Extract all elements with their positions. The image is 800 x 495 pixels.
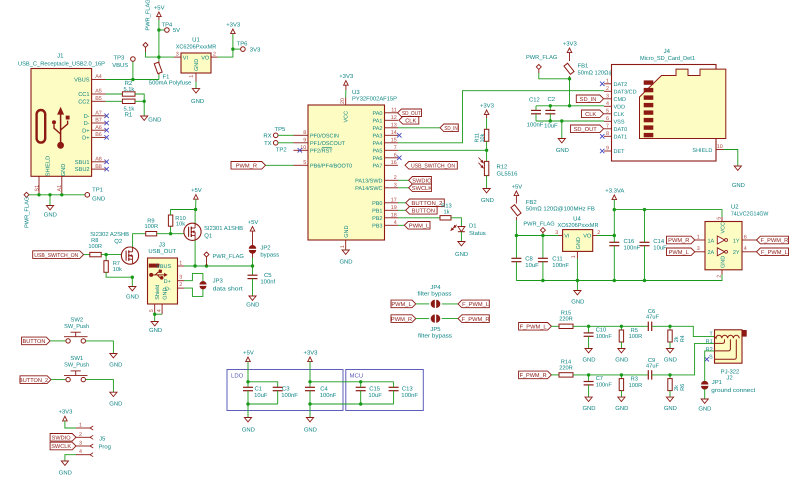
svg-text:C14: C14 xyxy=(653,238,665,245)
svg-text:10k: 10k xyxy=(176,220,185,227)
svg-text:GND: GND xyxy=(246,301,259,308)
svg-text:1: 1 xyxy=(179,260,182,266)
svg-text:3: 3 xyxy=(179,275,182,281)
svg-text:TP5: TP5 xyxy=(275,126,287,133)
svg-text:A5: A5 xyxy=(95,89,102,95)
svg-text:PB1: PB1 xyxy=(372,209,382,215)
svg-text:R2: R2 xyxy=(125,80,133,87)
svg-text:3V3: 3V3 xyxy=(250,47,261,54)
svg-text:B5: B5 xyxy=(95,96,102,102)
svg-text:PWR_FLAG: PWR_FLAG xyxy=(213,254,244,260)
svg-text:14: 14 xyxy=(391,130,397,136)
svg-text:GND: GND xyxy=(615,357,628,364)
svg-text:TP6: TP6 xyxy=(237,41,249,48)
svg-text:PWM_L: PWM_L xyxy=(391,302,411,308)
svg-text:PA4: PA4 xyxy=(373,141,383,147)
svg-text:100nF: 100nF xyxy=(596,334,613,340)
svg-text:JP3: JP3 xyxy=(213,278,224,285)
svg-text:SD_IN: SD_IN xyxy=(444,126,457,132)
svg-text:PA5: PA5 xyxy=(373,149,383,155)
svg-text:DAT0: DAT0 xyxy=(614,127,628,133)
svg-text:1A: 1A xyxy=(708,238,715,244)
svg-text:4: 4 xyxy=(606,101,609,107)
svg-text:RX: RX xyxy=(263,132,271,139)
svg-text:100nF: 100nF xyxy=(527,122,544,129)
svg-text:PY32F002AF15P: PY32F002AF15P xyxy=(352,96,397,103)
svg-text:C5: C5 xyxy=(264,272,272,279)
svg-text:100nF: 100nF xyxy=(552,262,569,269)
svg-text:SW1: SW1 xyxy=(70,355,83,362)
svg-text:3: 3 xyxy=(176,51,179,57)
svg-text:SI2301 A1SHB: SI2301 A1SHB xyxy=(204,225,243,232)
svg-text:J1: J1 xyxy=(57,52,64,59)
svg-text:JP2: JP2 xyxy=(260,245,270,252)
svg-text:2: 2 xyxy=(213,51,216,57)
svg-text:SBU2: SBU2 xyxy=(75,167,90,173)
svg-text:50mΩ 120Ω@100MHz FB: 50mΩ 120Ω@100MHz FB xyxy=(526,205,595,212)
svg-text:100nF: 100nF xyxy=(281,392,298,399)
svg-text:B7: B7 xyxy=(95,118,102,124)
svg-text:PA3: PA3 xyxy=(373,134,383,140)
svg-text:100nF: 100nF xyxy=(624,245,641,252)
svg-text:GND: GND xyxy=(109,400,122,407)
svg-text:74LVC2G14GW: 74LVC2G14GW xyxy=(731,210,769,217)
svg-text:17: 17 xyxy=(391,198,397,204)
svg-text:GND: GND xyxy=(481,197,494,204)
svg-text:TX: TX xyxy=(264,140,272,147)
svg-text:Shield: Shield xyxy=(155,285,161,300)
svg-text:PWM_R: PWM_R xyxy=(236,164,257,170)
svg-text:10uF: 10uF xyxy=(254,392,268,399)
svg-text:Q1: Q1 xyxy=(204,232,212,239)
svg-text:2A: 2A xyxy=(708,250,715,256)
svg-text:D+: D+ xyxy=(164,279,171,285)
svg-text:+5V: +5V xyxy=(248,219,259,226)
svg-text:PF1/OSCOUT: PF1/OSCOUT xyxy=(310,141,346,147)
svg-text:5.1k: 5.1k xyxy=(124,86,135,93)
svg-text:100nF: 100nF xyxy=(401,392,418,399)
svg-text:+3V3: +3V3 xyxy=(563,40,578,47)
svg-text:BUTTON_2: BUTTON_2 xyxy=(19,378,48,384)
svg-text:F_PWM_L: F_PWM_L xyxy=(462,302,489,308)
svg-text:100R: 100R xyxy=(144,224,158,230)
svg-text:1k: 1k xyxy=(443,208,449,215)
svg-text:SHIELD: SHIELD xyxy=(692,148,712,154)
svg-text:GND: GND xyxy=(721,256,727,268)
svg-text:GND: GND xyxy=(126,294,139,301)
svg-text:J3: J3 xyxy=(159,242,166,249)
svg-text:C11: C11 xyxy=(552,256,562,263)
svg-text:10: 10 xyxy=(300,145,306,151)
svg-text:U1: U1 xyxy=(192,36,200,43)
svg-text:DET: DET xyxy=(614,149,626,155)
svg-text:1: 1 xyxy=(340,245,346,248)
svg-text:USB_SWITCH_ON: USB_SWITCH_ON xyxy=(411,164,455,170)
svg-text:+3.3VA: +3.3VA xyxy=(605,187,624,194)
svg-text:GND: GND xyxy=(304,427,317,434)
svg-text:CMD: CMD xyxy=(614,97,627,103)
svg-text:SHIELD: SHIELD xyxy=(46,156,52,177)
svg-text:9: 9 xyxy=(606,146,609,152)
svg-text:DAT2: DAT2 xyxy=(614,82,628,88)
svg-text:10: 10 xyxy=(717,144,723,150)
svg-text:TP1: TP1 xyxy=(92,187,103,194)
svg-text:PA6: PA6 xyxy=(373,156,383,162)
svg-text:SW_Push: SW_Push xyxy=(64,323,89,330)
svg-text:GND: GND xyxy=(582,357,595,364)
svg-text:R5: R5 xyxy=(631,328,638,334)
svg-text:D1: D1 xyxy=(469,223,477,230)
svg-text:U4: U4 xyxy=(573,215,581,222)
svg-text:B8: B8 xyxy=(95,164,102,170)
svg-text:J5: J5 xyxy=(99,436,106,443)
svg-text:PB3: PB3 xyxy=(372,224,382,230)
svg-text:JP5: JP5 xyxy=(430,326,441,333)
svg-text:2: 2 xyxy=(394,175,397,181)
svg-text:500mA Polyfuse: 500mA Polyfuse xyxy=(149,80,192,87)
svg-text:C8: C8 xyxy=(525,256,533,263)
svg-text:GND: GND xyxy=(109,362,122,369)
svg-text:PA7: PA7 xyxy=(373,164,383,170)
svg-text:47uF: 47uF xyxy=(646,363,659,369)
svg-text:R6: R6 xyxy=(680,384,686,391)
svg-text:C13: C13 xyxy=(402,385,414,392)
svg-text:Status: Status xyxy=(469,230,486,237)
svg-text:1: 1 xyxy=(697,234,700,240)
svg-text:1: 1 xyxy=(571,255,577,258)
svg-text:+3V3: +3V3 xyxy=(339,73,354,80)
svg-text:JP1: JP1 xyxy=(712,379,722,386)
svg-text:3: 3 xyxy=(394,183,397,189)
svg-text:2: 2 xyxy=(79,432,82,438)
svg-text:11: 11 xyxy=(391,108,397,114)
svg-text:SW2: SW2 xyxy=(70,317,83,324)
svg-text:100R: 100R xyxy=(88,244,102,250)
svg-text:4: 4 xyxy=(79,449,82,455)
svg-text:5.1k: 5.1k xyxy=(124,105,135,112)
svg-text:F1: F1 xyxy=(163,74,170,81)
svg-text:5: 5 xyxy=(149,309,155,312)
svg-text:GND: GND xyxy=(582,405,595,412)
svg-text:R1: R1 xyxy=(706,339,713,345)
svg-text:SWDIO: SWDIO xyxy=(52,436,72,442)
svg-text:DAT1: DAT1 xyxy=(614,135,628,141)
svg-text:PWM_R: PWM_R xyxy=(391,317,412,323)
svg-text:R3: R3 xyxy=(631,377,638,383)
svg-text:PF2/RST: PF2/RST xyxy=(310,149,333,155)
svg-text:PWR_FLAG: PWR_FLAG xyxy=(523,221,554,227)
svg-text:100nF: 100nF xyxy=(320,392,337,399)
svg-text:D+: D+ xyxy=(82,128,90,134)
svg-text:VCC: VCC xyxy=(344,111,350,123)
svg-text:5: 5 xyxy=(717,217,723,220)
svg-text:100nF: 100nF xyxy=(596,382,613,388)
svg-text:GND: GND xyxy=(162,288,168,300)
svg-text:GND: GND xyxy=(664,357,677,364)
svg-text:VI: VI xyxy=(183,55,189,61)
svg-text:bypass: bypass xyxy=(260,252,279,259)
svg-text:DAT3/CD: DAT3/CD xyxy=(614,90,637,96)
svg-text:D-: D- xyxy=(84,121,90,127)
svg-text:GND: GND xyxy=(44,212,57,219)
svg-text:1: 1 xyxy=(606,79,609,85)
svg-text:1: 1 xyxy=(79,423,82,429)
svg-text:2: 2 xyxy=(717,275,723,278)
svg-text:A6: A6 xyxy=(95,125,102,131)
svg-text:ground connect: ground connect xyxy=(711,387,755,394)
svg-text:CLK: CLK xyxy=(614,112,625,118)
svg-text:J4: J4 xyxy=(664,48,671,55)
svg-text:1: 1 xyxy=(189,75,195,78)
svg-text:VDD: VDD xyxy=(614,105,626,111)
svg-text:GND: GND xyxy=(149,327,162,334)
svg-text:1Y: 1Y xyxy=(733,238,740,244)
svg-text:+3V3: +3V3 xyxy=(58,409,73,416)
svg-text:GND: GND xyxy=(59,469,72,476)
svg-text:TP3: TP3 xyxy=(114,55,126,62)
svg-text:VBUS: VBUS xyxy=(74,78,90,84)
svg-text:GND: GND xyxy=(61,164,67,177)
svg-text:19: 19 xyxy=(391,205,397,211)
svg-text:PWR_FLAG: PWR_FLAG xyxy=(526,55,557,61)
svg-text:3: 3 xyxy=(606,94,609,100)
svg-text:SD_OUT: SD_OUT xyxy=(574,127,598,133)
svg-text:10k: 10k xyxy=(113,266,122,273)
svg-text:13: 13 xyxy=(391,123,397,129)
svg-text:R12: R12 xyxy=(497,163,508,170)
svg-text:8: 8 xyxy=(303,130,306,136)
svg-text:PF0/OSCIN: PF0/OSCIN xyxy=(310,134,339,140)
svg-text:C4: C4 xyxy=(320,385,328,392)
svg-text:Micro_SD_Card_Det1: Micro_SD_Card_Det1 xyxy=(640,55,695,62)
svg-text:100R: 100R xyxy=(629,383,643,389)
svg-text:CC1: CC1 xyxy=(78,92,89,98)
svg-text:+5V: +5V xyxy=(512,183,523,190)
svg-text:BUTTON: BUTTON xyxy=(412,209,435,215)
svg-text:2: 2 xyxy=(606,86,609,92)
svg-text:100nf: 100nf xyxy=(260,279,275,286)
svg-text:+5V: +5V xyxy=(243,349,254,356)
svg-text:GND: GND xyxy=(615,405,628,412)
svg-text:18: 18 xyxy=(391,213,397,219)
svg-text:47uF: 47uF xyxy=(646,315,659,321)
svg-text:GND: GND xyxy=(732,182,745,189)
svg-text:U2: U2 xyxy=(731,204,739,211)
svg-text:C12: C12 xyxy=(529,97,540,104)
svg-text:PWR_FLAG: PWR_FLAG xyxy=(145,0,151,31)
svg-text:C3: C3 xyxy=(282,385,290,392)
svg-text:A8: A8 xyxy=(95,157,102,163)
svg-text:PWM_L: PWM_L xyxy=(669,250,689,256)
svg-text:220R: 220R xyxy=(559,365,573,371)
svg-text:GND: GND xyxy=(698,406,711,413)
svg-text:R2: R2 xyxy=(706,347,713,353)
svg-text:VCC: VCC xyxy=(721,222,727,234)
svg-text:PA13/SWD: PA13/SWD xyxy=(355,179,382,185)
svg-text:TP4: TP4 xyxy=(162,21,174,28)
svg-text:Q2: Q2 xyxy=(114,238,122,245)
svg-text:12: 12 xyxy=(391,115,397,121)
svg-text:F_PWM_R: F_PWM_R xyxy=(520,373,547,379)
svg-text:data short: data short xyxy=(213,285,243,292)
svg-text:2: 2 xyxy=(179,282,182,288)
svg-text:S: S xyxy=(709,354,713,360)
svg-text:XC6206PxxxMR: XC6206PxxxMR xyxy=(558,222,599,229)
svg-text:100R: 100R xyxy=(629,334,643,340)
svg-text:R7: R7 xyxy=(113,261,120,267)
svg-text:PWM_R: PWM_R xyxy=(668,238,689,244)
svg-text:FB1: FB1 xyxy=(578,63,589,70)
svg-text:C16: C16 xyxy=(624,238,636,245)
svg-text:7: 7 xyxy=(394,145,397,151)
svg-text:J2: J2 xyxy=(726,375,732,382)
svg-text:A1: A1 xyxy=(57,185,63,192)
svg-text:F_PWM_L: F_PWM_L xyxy=(761,250,788,256)
svg-text:filter bypass: filter bypass xyxy=(418,333,452,340)
svg-text:5: 5 xyxy=(606,109,609,115)
svg-text:R1: R1 xyxy=(125,111,133,118)
svg-text:10uF: 10uF xyxy=(525,262,539,269)
svg-text:C1: C1 xyxy=(255,385,263,392)
svg-text:+3V3: +3V3 xyxy=(226,21,241,28)
svg-text:PWR_FLAG: PWR_FLAG xyxy=(25,197,31,228)
svg-text:GND: GND xyxy=(344,226,350,238)
svg-text:+3V3: +3V3 xyxy=(304,349,319,356)
svg-text:PA2: PA2 xyxy=(373,126,383,132)
svg-text:PB0: PB0 xyxy=(372,201,382,207)
svg-text:U3: U3 xyxy=(352,89,360,96)
svg-text:C7: C7 xyxy=(596,376,603,382)
svg-text:F_PWM_R: F_PWM_R xyxy=(462,317,490,323)
svg-text:A4: A4 xyxy=(95,74,102,80)
svg-text:GND: GND xyxy=(242,427,255,434)
svg-text:+5V: +5V xyxy=(191,187,202,194)
svg-text:USB_C_Receptacle_USB2.0_16P: USB_C_Receptacle_USB2.0_16P xyxy=(18,60,105,67)
svg-text:9: 9 xyxy=(303,138,306,144)
svg-text:GND: GND xyxy=(556,147,569,154)
svg-text:XC6206PxxxMR: XC6206PxxxMR xyxy=(176,44,217,51)
svg-text:VI: VI xyxy=(564,234,570,240)
svg-text:16: 16 xyxy=(391,160,397,166)
svg-text:USB_SWITCH_ON: USB_SWITCH_ON xyxy=(34,253,78,259)
svg-text:10k: 10k xyxy=(480,133,486,142)
svg-text:D-: D- xyxy=(84,114,90,120)
svg-text:SD_IN: SD_IN xyxy=(580,97,597,103)
svg-text:10uF: 10uF xyxy=(544,122,558,129)
svg-text:R4: R4 xyxy=(680,335,686,342)
svg-text:GL5516: GL5516 xyxy=(497,171,519,178)
svg-text:4: 4 xyxy=(394,220,397,226)
svg-text:PA14/SWC: PA14/SWC xyxy=(355,186,382,192)
svg-text:VO: VO xyxy=(583,234,592,240)
svg-text:7: 7 xyxy=(606,124,609,130)
svg-text:220R: 220R xyxy=(559,317,573,323)
svg-text:TP2: TP2 xyxy=(276,147,287,154)
svg-text:5V: 5V xyxy=(173,27,180,34)
svg-text:VO: VO xyxy=(201,55,210,61)
svg-text:4: 4 xyxy=(744,246,747,252)
svg-text:VBUS: VBUS xyxy=(156,264,171,270)
svg-text:SBU1: SBU1 xyxy=(75,160,90,166)
svg-text:B6: B6 xyxy=(95,132,102,138)
svg-text:USB_OUT: USB_OUT xyxy=(148,248,176,255)
svg-text:GND: GND xyxy=(339,259,352,266)
svg-text:6: 6 xyxy=(606,116,609,122)
svg-text:SW_Push: SW_Push xyxy=(64,362,89,369)
svg-text:3: 3 xyxy=(555,230,558,236)
svg-text:PB6/PF4/BOOT0: PB6/PF4/BOOT0 xyxy=(310,164,352,170)
svg-text:GND: GND xyxy=(148,116,161,123)
svg-text:+3V3: +3V3 xyxy=(480,102,495,109)
svg-text:4: 4 xyxy=(157,309,163,312)
svg-text:15: 15 xyxy=(391,138,397,144)
svg-text:2Y: 2Y xyxy=(733,250,740,256)
svg-text:10uF: 10uF xyxy=(653,245,667,252)
svg-text:JP4: JP4 xyxy=(430,284,441,291)
svg-text:20: 20 xyxy=(340,98,346,104)
svg-text:F_PWM_R: F_PWM_R xyxy=(760,238,788,244)
svg-text:GND: GND xyxy=(92,195,105,202)
svg-text:PB2: PB2 xyxy=(372,216,382,222)
svg-text:C2: C2 xyxy=(548,96,556,103)
svg-text:C10: C10 xyxy=(596,327,606,333)
svg-text:SWCLK: SWCLK xyxy=(51,444,71,450)
svg-text:GND: GND xyxy=(191,98,204,105)
svg-text:D+: D+ xyxy=(82,136,90,142)
svg-text:10uF: 10uF xyxy=(368,392,382,399)
svg-text:CLK: CLK xyxy=(405,119,416,125)
svg-text:GND: GND xyxy=(455,251,468,258)
svg-text:PWM_L: PWM_L xyxy=(409,224,429,230)
svg-text:filter bypass: filter bypass xyxy=(418,291,452,298)
svg-text:A7: A7 xyxy=(95,111,102,117)
svg-text:8: 8 xyxy=(606,131,609,137)
svg-text:VSS: VSS xyxy=(614,120,625,126)
svg-text:6: 6 xyxy=(744,234,747,240)
svg-text:3: 3 xyxy=(697,246,700,252)
svg-text:+5V: +5V xyxy=(154,4,165,11)
svg-text:R8: R8 xyxy=(91,238,98,244)
svg-text:F_PWM_L: F_PWM_L xyxy=(520,325,547,331)
svg-text:S1: S1 xyxy=(34,185,40,192)
svg-text:FB2: FB2 xyxy=(526,199,537,206)
svg-text:PA1: PA1 xyxy=(373,119,383,125)
svg-text:6: 6 xyxy=(394,153,397,159)
svg-text:GND: GND xyxy=(576,237,582,249)
svg-text:LDO: LDO xyxy=(231,373,244,380)
svg-text:5: 5 xyxy=(303,160,306,166)
svg-text:GND: GND xyxy=(664,405,677,412)
svg-text:3: 3 xyxy=(79,441,82,447)
svg-text:GND: GND xyxy=(194,59,200,71)
svg-text:SWCLK: SWCLK xyxy=(412,186,432,192)
svg-text:PJ-322: PJ-322 xyxy=(721,368,740,375)
svg-text:CLK: CLK xyxy=(585,112,596,118)
svg-text:GND: GND xyxy=(571,299,584,306)
svg-text:CC2: CC2 xyxy=(78,99,89,105)
svg-text:MCU: MCU xyxy=(350,373,364,380)
svg-text:SI2302 A2SHB: SI2302 A2SHB xyxy=(90,231,129,238)
svg-text:BUTTON: BUTTON xyxy=(22,339,45,345)
svg-text:C15: C15 xyxy=(369,385,381,392)
svg-text:VBUS: VBUS xyxy=(112,62,128,69)
svg-text:Prog: Prog xyxy=(99,444,111,451)
svg-text:PA0: PA0 xyxy=(373,111,383,117)
